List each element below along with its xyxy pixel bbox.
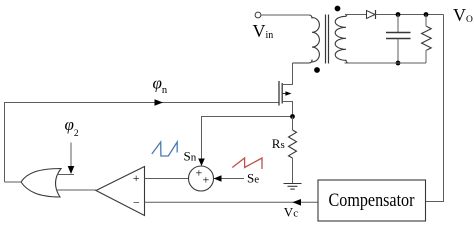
Se waveform (red sawtooth)	[232, 158, 262, 169]
diode D1	[367, 11, 376, 19]
wire: Rs top stub	[292, 117, 294, 131]
compensator block	[318, 180, 426, 221]
arrowhead on phi_n wire	[155, 99, 164, 106]
transformer T1 secondary winding	[335, 15, 366, 64]
summing junction U2	[189, 166, 214, 191]
node Vin terminal	[255, 12, 261, 18]
arrowhead sense into summer top	[198, 159, 205, 167]
svg-text:−: −	[133, 195, 140, 209]
node junction dot load top	[424, 12, 429, 17]
svg-text:Vc: Vc	[284, 205, 298, 220]
wire: comparator + input to summer	[145, 178, 189, 180]
wire: Vin to primary	[261, 14, 309, 16]
Sn waveform (blue sawtooth)	[152, 142, 177, 156]
wire: phi_n gate drive horizontal	[4, 102, 279, 104]
transistor Q1 MOSFET gate bar	[278, 81, 280, 106]
svg-text:+: +	[133, 171, 140, 185]
transistor Q1 channel bar	[281, 83, 283, 104]
arrowhead Se into summer right	[214, 175, 222, 182]
svg-text:Sn: Sn	[184, 148, 197, 163]
svg-text:Se: Se	[247, 171, 259, 186]
comparator U1 (pointing left)	[96, 167, 145, 216]
wire: secondary top lead	[345, 14, 367, 16]
wire: OR gate bottom input from comparator output	[57, 189, 97, 191]
svg-text:+: +	[196, 166, 203, 180]
wire: bottom rail	[345, 62, 427, 64]
wire: drain stub	[282, 63, 292, 85]
wire: source stub	[282, 102, 292, 117]
wire: phi_2 arrow vertical	[70, 143, 72, 168]
wire: top rail diode to corner	[376, 14, 444, 16]
svg-text:+: +	[203, 173, 210, 187]
wire: left feedback vertical	[4, 103, 6, 183]
arrowhead on Vc wire pointing left	[292, 199, 301, 206]
transformer primary polarity dot	[314, 67, 320, 73]
wire: OR gate output stub	[5, 181, 22, 183]
OR gate (mirrored, pointing left)	[21, 169, 61, 198]
wire: Se arrow into summer	[214, 178, 244, 180]
transistor body arrow	[282, 93, 286, 95]
wire: Rs to ground	[292, 158, 294, 184]
node junction dot cap top	[396, 12, 401, 17]
transformer core	[325, 15, 327, 64]
wire: Vc wire comparator - input to compensator	[145, 201, 319, 203]
transformer secondary polarity dot	[335, 6, 341, 12]
wire: OR gate top input	[57, 174, 74, 176]
capacitor C1	[397, 15, 399, 33]
svg-text:Rs: Rs	[272, 136, 285, 151]
arrowhead phi_2 into OR gate	[68, 166, 75, 174]
resistor Rs	[289, 130, 297, 158]
node junction dot source/Rs	[290, 114, 295, 119]
wire: Vo feedback down to compensator	[426, 15, 444, 202]
transformer T1 primary winding	[293, 15, 320, 63]
svg-text:Compensator: Compensator	[329, 191, 415, 211]
wire: current sense from Rs node	[202, 117, 293, 162]
node junction dot cap bottom	[396, 61, 401, 66]
ground	[284, 184, 302, 190]
resistor R-load	[425, 15, 427, 27]
